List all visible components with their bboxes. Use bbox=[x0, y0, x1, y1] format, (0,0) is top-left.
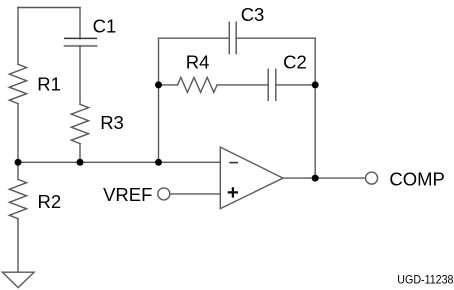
op-amp U1 bbox=[220, 147, 283, 209]
terminal VREF circle bbox=[158, 188, 170, 200]
node junction feedback left mid bbox=[155, 81, 162, 88]
resistor R2 bbox=[9, 179, 26, 218]
node junction left rail bbox=[15, 159, 22, 166]
wire output bbox=[283, 177, 365, 179]
capacitor C3 bbox=[229, 22, 236, 53]
wire C2 to right vertical bbox=[276, 84, 315, 86]
wire C1 to R3 bbox=[79, 46, 81, 104]
wire VREF to plus input bbox=[170, 193, 220, 195]
node junction R3 bottom bbox=[77, 159, 84, 166]
capacitor C2 bbox=[268, 69, 276, 100]
capacitor C1 bbox=[65, 38, 97, 46]
ground bbox=[2, 272, 34, 287]
svg-text:C2: C2 bbox=[283, 51, 307, 72]
svg-text:R2: R2 bbox=[38, 191, 62, 212]
op-amp minus sign bbox=[229, 162, 238, 164]
wire R4 to C2 bbox=[217, 84, 268, 86]
wire left rail top vertical bbox=[17, 8, 19, 65]
wire R1 bottom to node row bbox=[17, 104, 19, 163]
node junction inverting input bbox=[155, 159, 162, 166]
node junction feedback right mid bbox=[312, 81, 319, 88]
resistor R3 bbox=[71, 104, 88, 143]
wire top feedback left bbox=[159, 37, 230, 39]
svg-text:VREF: VREF bbox=[103, 184, 152, 205]
resistor R4 bbox=[178, 77, 218, 92]
wire R2 top stub bbox=[17, 162, 19, 179]
wire top feedback right bbox=[237, 37, 316, 39]
svg-text:R1: R1 bbox=[37, 74, 61, 95]
svg-text:UGD-11238: UGD-11238 bbox=[397, 272, 453, 286]
wire mid feedback left stub bbox=[159, 84, 178, 86]
resistor R1 bbox=[9, 64, 26, 103]
wire right feedback vertical bbox=[314, 38, 316, 178]
terminal COMP circle bbox=[366, 172, 378, 184]
wire main node row bbox=[18, 161, 220, 163]
svg-text:R3: R3 bbox=[100, 112, 124, 133]
wire R3 bottom to node row bbox=[79, 144, 81, 163]
wire top-left rail horizontal bbox=[18, 7, 80, 9]
svg-text:C3: C3 bbox=[241, 4, 265, 25]
svg-text:R4: R4 bbox=[186, 51, 210, 72]
node junction output bbox=[312, 175, 319, 182]
svg-text:C1: C1 bbox=[93, 16, 117, 37]
wire feedback left vertical bbox=[158, 38, 160, 162]
wire C1 branch top bbox=[79, 8, 81, 39]
svg-text:COMP: COMP bbox=[389, 168, 445, 189]
op-amp plus sign bbox=[228, 187, 238, 197]
wire R2 bottom to ground bbox=[17, 219, 19, 273]
